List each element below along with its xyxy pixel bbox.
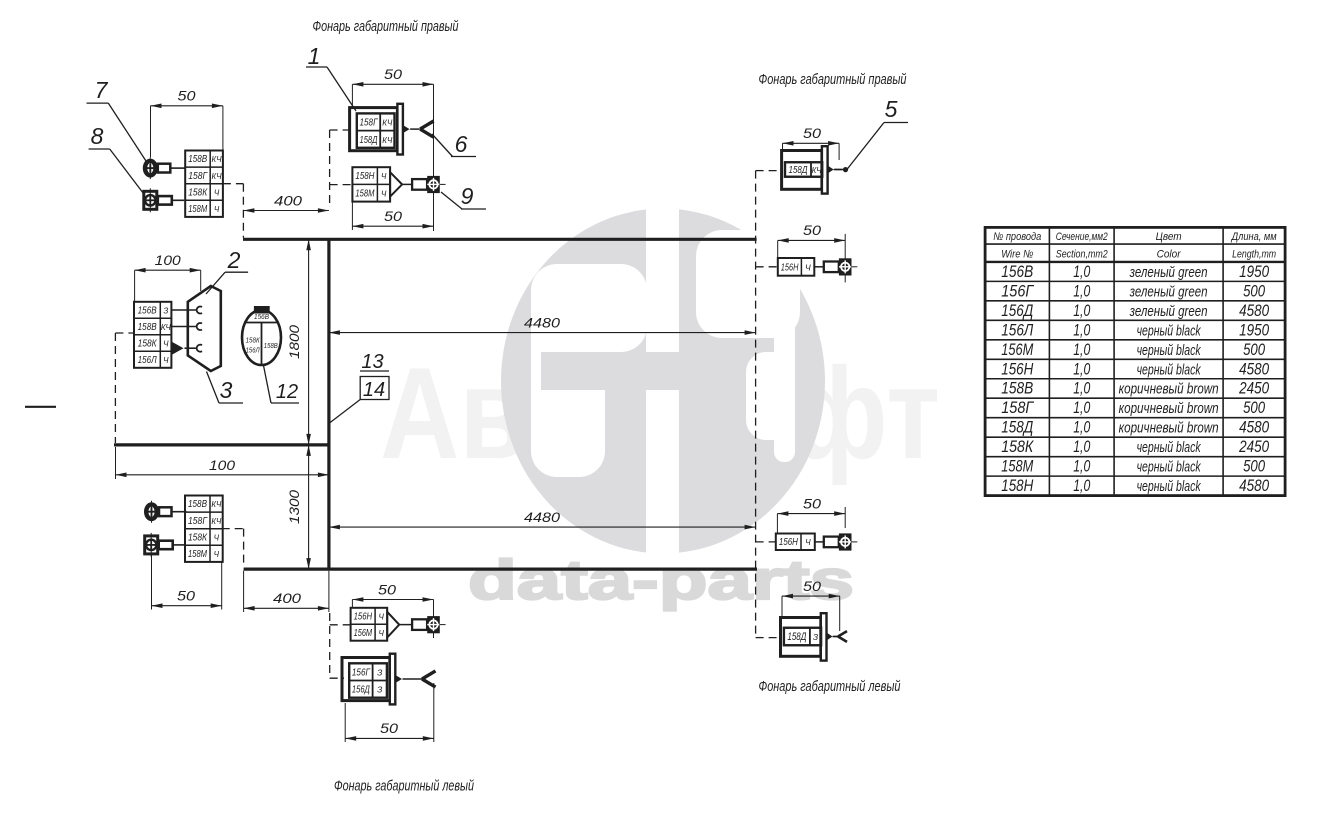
svg-text:Сечение,мм2: Сечение,мм2 (1056, 231, 1108, 243)
svg-text:1,0: 1,0 (1073, 380, 1091, 398)
svg-text:156М: 156М (1001, 341, 1033, 359)
svg-text:158Н: 158Н (1001, 477, 1033, 495)
svg-text:Ч: Ч (214, 550, 220, 559)
svg-text:50: 50 (380, 720, 398, 736)
svg-text:№ провода: № провода (993, 231, 1041, 243)
svg-text:14: 14 (363, 379, 385, 401)
svg-text:500: 500 (1243, 282, 1266, 300)
svg-text:черный black: черный black (1137, 342, 1202, 359)
svg-text:1,0: 1,0 (1073, 399, 1091, 417)
svg-text:6: 6 (455, 131, 468, 157)
svg-text:1,0: 1,0 (1073, 438, 1091, 456)
svg-text:50: 50 (177, 588, 195, 604)
svg-text:1,0: 1,0 (1073, 360, 1091, 378)
svg-text:1,0: 1,0 (1073, 419, 1091, 437)
svg-text:50: 50 (178, 88, 196, 104)
svg-text:156Л: 156Л (1001, 321, 1034, 339)
svg-text:1,0: 1,0 (1073, 263, 1091, 281)
svg-text:158В: 158В (188, 499, 207, 510)
svg-text:1800: 1800 (286, 325, 302, 359)
svg-text:Color: Color (1157, 249, 1182, 261)
svg-text:158Г: 158Г (360, 118, 379, 129)
svg-text:2450: 2450 (1238, 380, 1269, 398)
svg-text:400: 400 (274, 193, 302, 209)
svg-text:З: З (377, 668, 383, 678)
svg-text:4480: 4480 (524, 315, 560, 331)
svg-text:158В: 158В (1001, 380, 1033, 398)
svg-text:КЧ: КЧ (212, 155, 223, 164)
svg-text:З: З (163, 306, 168, 315)
svg-text:1,0: 1,0 (1073, 282, 1091, 300)
svg-text:400: 400 (273, 590, 301, 606)
svg-text:158К: 158К (246, 336, 260, 345)
svg-text:4580: 4580 (1239, 477, 1270, 495)
svg-text:коричневый brown: коричневый brown (1119, 400, 1219, 417)
svg-text:Ч: Ч (214, 205, 220, 214)
svg-text:158Д: 158Д (360, 135, 378, 146)
svg-text:158Д: 158Д (787, 631, 806, 643)
svg-text:1,0: 1,0 (1073, 458, 1091, 476)
svg-text:12: 12 (276, 381, 298, 403)
svg-text:зеленый green: зеленый green (1129, 264, 1208, 281)
svg-text:4480: 4480 (524, 509, 560, 525)
svg-text:156В: 156В (254, 312, 269, 321)
svg-text:156Н: 156Н (779, 537, 799, 548)
svg-text:черный black: черный black (1137, 439, 1202, 456)
svg-text:50: 50 (378, 582, 396, 598)
svg-text:Ч: Ч (378, 629, 384, 638)
svg-text:50: 50 (384, 66, 402, 82)
svg-text:156Н: 156Н (1001, 360, 1033, 378)
svg-text:158К: 158К (1001, 438, 1034, 456)
svg-text:158В: 158В (264, 341, 278, 350)
svg-text:156В: 156В (138, 305, 157, 316)
svg-text:Фонарь габаритный правый: Фонарь габаритный правый (313, 19, 459, 35)
svg-text:158М: 158М (188, 204, 208, 215)
svg-text:3: 3 (220, 377, 233, 403)
svg-text:Ч: Ч (163, 339, 169, 348)
svg-text:Ч: Ч (381, 172, 387, 181)
svg-text:Ч: Ч (214, 188, 220, 197)
svg-text:156Г: 156Г (352, 668, 371, 679)
svg-text:1,0: 1,0 (1073, 477, 1091, 495)
svg-text:158Д: 158Д (789, 165, 808, 176)
svg-text:156В: 156В (1001, 263, 1033, 281)
svg-text:100: 100 (155, 252, 181, 268)
svg-text:4580: 4580 (1239, 302, 1270, 320)
svg-text:Длина, мм: Длина, мм (1230, 231, 1277, 243)
svg-text:1,0: 1,0 (1073, 302, 1091, 320)
svg-text:4580: 4580 (1239, 360, 1270, 378)
svg-text:1,0: 1,0 (1073, 341, 1091, 359)
svg-text:158М: 158М (188, 549, 208, 560)
svg-text:7: 7 (95, 77, 109, 103)
svg-text:1950: 1950 (1239, 321, 1270, 339)
svg-text:2: 2 (227, 247, 241, 273)
svg-text:13: 13 (361, 351, 383, 373)
svg-text:158Г: 158Г (188, 171, 208, 182)
svg-text:156Н: 156Н (354, 611, 373, 622)
svg-text:500: 500 (1243, 399, 1266, 417)
svg-text:Ч: Ч (214, 533, 220, 542)
svg-text:Цвет: Цвет (1156, 231, 1182, 243)
svg-text:коричневый brown: коричневый brown (1119, 381, 1219, 398)
svg-text:158М: 158М (355, 188, 375, 199)
svg-text:КЧ: КЧ (382, 118, 392, 128)
svg-text:100: 100 (209, 457, 235, 473)
svg-text:50: 50 (803, 578, 821, 594)
svg-text:500: 500 (1243, 458, 1266, 476)
svg-text:8: 8 (91, 123, 104, 149)
svg-text:зеленый green: зеленый green (1129, 283, 1208, 300)
svg-text:З: З (377, 685, 383, 695)
svg-text:156Н: 156Н (781, 262, 799, 273)
svg-text:156Г: 156Г (1001, 282, 1034, 300)
svg-text:Ч: Ч (805, 538, 811, 547)
svg-text:156Д: 156Д (352, 685, 370, 696)
svg-text:КЧ: КЧ (812, 165, 822, 175)
svg-text:КЧ: КЧ (211, 517, 222, 526)
svg-text:Фонарь габаритный левый: Фонарь габаритный левый (334, 779, 474, 795)
svg-text:156Л: 156Л (246, 346, 261, 355)
svg-text:158Г: 158Г (188, 516, 208, 527)
svg-text:5: 5 (885, 96, 898, 122)
svg-text:Ч: Ч (163, 356, 169, 365)
svg-text:черный black: черный black (1137, 361, 1202, 378)
svg-text:158В: 158В (138, 322, 157, 333)
svg-text:500: 500 (1243, 341, 1266, 359)
svg-text:Section,mm2: Section,mm2 (1056, 249, 1108, 261)
svg-text:1300: 1300 (286, 490, 302, 524)
svg-text:1950: 1950 (1239, 263, 1270, 281)
svg-text:158К: 158К (188, 187, 208, 198)
svg-text:2450: 2450 (1238, 438, 1269, 456)
svg-text:50: 50 (384, 208, 402, 224)
svg-text:Ч: Ч (378, 612, 384, 621)
svg-text:9: 9 (461, 183, 474, 209)
svg-text:158К: 158К (138, 338, 158, 349)
svg-text:data-parts: data-parts (468, 548, 854, 611)
svg-text:1: 1 (308, 43, 321, 69)
svg-text:КЧ: КЧ (382, 135, 392, 145)
svg-text:Length,mm: Length,mm (1232, 249, 1276, 261)
svg-text:50: 50 (803, 125, 821, 141)
svg-text:Фонарь габаритный правый: Фонарь габаритный правый (759, 72, 907, 88)
svg-text:50: 50 (803, 222, 821, 238)
svg-text:158М: 158М (1001, 458, 1033, 476)
svg-text:Ч: Ч (381, 189, 387, 198)
svg-text:1,0: 1,0 (1073, 321, 1091, 339)
svg-text:158Н: 158Н (355, 171, 375, 182)
svg-text:КЧ: КЧ (212, 172, 223, 181)
svg-text:156Д: 156Д (1001, 302, 1033, 320)
svg-text:Фонарь габаритный левый: Фонарь габаритный левый (759, 679, 901, 695)
svg-text:Ч: Ч (805, 262, 811, 272)
svg-text:50: 50 (803, 496, 821, 512)
svg-text:156М: 156М (354, 628, 373, 639)
svg-text:4580: 4580 (1239, 419, 1270, 437)
svg-text:черный black: черный black (1137, 459, 1202, 476)
svg-text:КЧ: КЧ (161, 323, 172, 332)
svg-text:черный black: черный black (1137, 322, 1202, 339)
svg-text:коричневый brown: коричневый brown (1119, 420, 1219, 437)
svg-text:158К: 158К (188, 532, 208, 543)
svg-text:З: З (813, 632, 819, 642)
svg-text:158Г: 158Г (1001, 399, 1034, 417)
svg-text:зеленый green: зеленый green (1129, 303, 1208, 320)
svg-text:158Д: 158Д (1001, 419, 1033, 437)
svg-text:черный black: черный black (1137, 478, 1202, 495)
svg-text:156Л: 156Л (138, 355, 157, 366)
svg-text:Wire №: Wire № (1001, 249, 1033, 261)
svg-text:КЧ: КЧ (211, 500, 222, 509)
svg-text:158В: 158В (188, 154, 207, 165)
